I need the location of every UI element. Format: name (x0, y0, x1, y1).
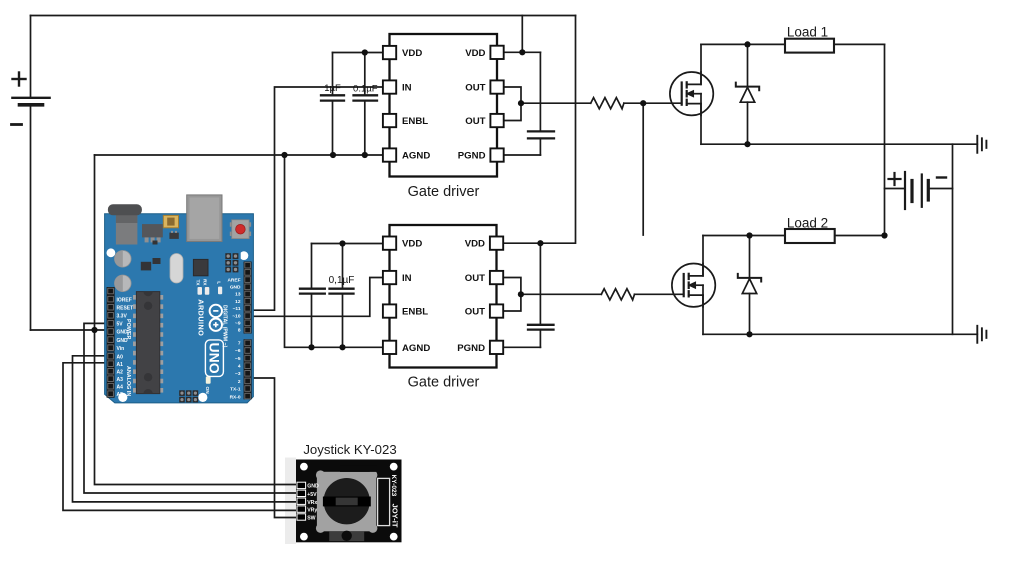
pin header (297, 482, 306, 520)
wire Load 1 to battery B2 plus vertical (884, 44, 886, 235)
module PCB (296, 460, 402, 543)
node D2 cathode (746, 232, 752, 238)
pin labels (307, 484, 319, 522)
svg-text:Gate driver: Gate driver (408, 184, 480, 200)
svg-text:JOY-iT: JOY-iT (391, 504, 400, 528)
svg-text:~5: ~5 (235, 356, 241, 362)
svg-text:VDD: VDD (465, 48, 485, 59)
left pin header power (107, 287, 115, 352)
svg-text:GND: GND (230, 285, 241, 291)
ARDUINO infinity logo (210, 305, 222, 331)
wire Arduino pin ~10 to gate driver U2 IN (251, 278, 384, 317)
wire stub node below R1 (642, 103, 644, 235)
MOSFET Q1 (670, 72, 713, 115)
svg-text:ENBL: ENBL (402, 307, 428, 318)
Arduino UNO board (105, 195, 254, 403)
joystick knob (324, 478, 370, 524)
svg-text:ON: ON (204, 387, 210, 395)
USB connector (187, 195, 222, 242)
button body bottom (329, 531, 364, 541)
voltage regulator (145, 237, 149, 242)
svg-text:2: 2 (238, 379, 241, 385)
capacitor C3 (U1 VDD-PGND bypass) (504, 131, 555, 155)
svg-text:12: 12 (235, 299, 241, 305)
wire Arduino A0 to joystick VRx (73, 356, 300, 502)
svg-text:KY-023: KY-023 (390, 475, 397, 497)
node C5 to U2 VDD (339, 240, 345, 246)
ground symbol (upper) (977, 136, 986, 153)
svg-text:PGND: PGND (457, 343, 485, 354)
svg-text:~3: ~3 (235, 371, 241, 377)
crystal (170, 254, 183, 284)
wire ground vertical from AGND rail to joystick GND (95, 155, 300, 485)
polyfuse (163, 215, 178, 227)
svg-text:AREF: AREF (227, 277, 240, 283)
svg-text:VRx: VRx (307, 500, 317, 506)
wire Arduino pin 2 to joystick SW (251, 378, 300, 518)
svg-text:L: L (216, 281, 221, 284)
ATmega DIP chip (133, 292, 163, 394)
load resistor Load 1 (785, 39, 834, 53)
capacitor C4 (U2 left cap) (300, 244, 325, 348)
node C4 to AGND2 (308, 344, 314, 350)
wire R1 to MOSFET Q1 gate (624, 102, 682, 104)
node U2 VDD supply junction (537, 240, 543, 246)
node C1 to AGND (330, 152, 336, 158)
svg-text:UNO: UNO (206, 343, 222, 374)
right pin header digital low (244, 339, 252, 399)
corner holes (300, 463, 308, 471)
node GND at Arduino (91, 327, 97, 333)
capacitor C5 0,1uF (330, 244, 354, 348)
svg-text:DIGITAL (PWM ~): DIGITAL (PWM ~) (222, 305, 228, 348)
node U2 OUT junction (518, 291, 524, 297)
svg-text:A3: A3 (117, 377, 124, 383)
svg-text:IN: IN (402, 273, 412, 284)
capacitor C2 0.1uF (354, 53, 378, 156)
light backing strip behind joystick (285, 458, 296, 545)
ON LED (206, 376, 211, 383)
svg-text:ARDUINO: ARDUINO (197, 299, 206, 336)
capacitor C1 1uF (321, 53, 344, 156)
node U1 VDD supply junction (519, 49, 525, 55)
svg-text:~10: ~10 (232, 313, 240, 319)
TX RX L LEDs (198, 287, 203, 295)
svg-text:Load 1: Load 1 (787, 24, 828, 39)
svg-text:IOREF: IOREF (117, 297, 132, 303)
svg-text:Joystick KY-023: Joystick KY-023 (303, 442, 396, 457)
svg-text:A4: A4 (117, 384, 124, 390)
wire VDD decoupling rail of U1 (333, 52, 384, 54)
svg-text:~9: ~9 (235, 321, 241, 327)
svg-text:A1: A1 (117, 362, 124, 368)
svg-text:A5: A5 (117, 392, 124, 398)
node C5 to AGND2 (339, 344, 345, 350)
wire U2 OUT pins tied to node (504, 278, 602, 312)
joystick base (316, 465, 378, 533)
node C2 to AGND (362, 152, 368, 158)
svg-text:RX-0: RX-0 (230, 394, 241, 400)
svg-text:GND: GND (117, 330, 129, 336)
capacitor C6 (U2 VDD-PGND bypass) (504, 243, 554, 347)
wire VDD decoupling rail of U2 (312, 243, 384, 245)
mounting holes (107, 248, 116, 257)
svg-text:7: 7 (238, 340, 241, 346)
svg-text:OUT: OUT (465, 116, 485, 127)
resistor R2 (gate resistor) (601, 289, 634, 300)
svg-text:VDD: VDD (402, 239, 422, 250)
svg-text:~11: ~11 (233, 306, 241, 312)
svg-text:TX-1: TX-1 (230, 387, 241, 393)
electrolytic capacitors (115, 250, 132, 291)
right pin header digital high (244, 262, 252, 334)
ICSP header top-right (225, 252, 241, 272)
wire Q1 drain rail to Load 1 (701, 44, 885, 84)
node Q1 gate junction (640, 100, 646, 106)
svg-text:VRy: VRy (307, 508, 317, 514)
smd transistor (169, 233, 178, 239)
MOSFET Q2 (672, 264, 715, 307)
Joystick KY-023 module (296, 460, 402, 543)
svg-text:AGND: AGND (402, 343, 430, 354)
load resistor Load 2 (785, 229, 835, 243)
svg-text:RX: RX (203, 279, 208, 286)
node D1 anode (744, 141, 750, 147)
wire Arduino pin ~11 to gate driver U1 IN (251, 87, 384, 310)
svg-text:GND: GND (307, 484, 319, 490)
svg-text:4: 4 (238, 364, 241, 370)
SMD outline right (378, 478, 390, 525)
wire R2 to MOSFET Q2 gate (635, 293, 684, 295)
gate driver U1 (383, 34, 504, 200)
svg-text:OUT: OUT (465, 83, 485, 94)
resistor R1 (gate resistor) (591, 98, 624, 109)
ICSP header bottom (179, 390, 198, 402)
node D2 anode (746, 331, 752, 337)
svg-text:Gate driver: Gate driver (408, 375, 480, 391)
svg-text:~6: ~6 (235, 348, 241, 354)
svg-text:IN: IN (402, 83, 412, 94)
svg-text:+5V: +5V (307, 492, 317, 498)
board PCB (105, 214, 254, 403)
svg-text:8: 8 (238, 328, 241, 334)
UNO label (205, 340, 223, 377)
svg-text:13: 13 (235, 292, 241, 298)
small ICs (141, 262, 151, 271)
node B2 plus with Load 2 (881, 232, 887, 238)
svg-text:ANALOG IN: ANALOG IN (125, 366, 131, 396)
wire top supply rail from battery B1 plus to driver drop (31, 15, 576, 17)
wire Q2 source rail to ground (703, 295, 977, 334)
reset button (230, 220, 251, 239)
node U1 VDD decoupling junction (362, 49, 368, 55)
svg-text:5V: 5V (117, 322, 124, 328)
svg-text:PGND: PGND (458, 151, 486, 162)
svg-text:ENBL: ENBL (402, 116, 428, 127)
power jack (116, 211, 137, 245)
zener diode D2 (across Q2) (738, 236, 761, 335)
left pin header analog (107, 352, 115, 397)
wire AGND drop to gate driver U2 AGND rail (285, 155, 384, 347)
svg-text:SW: SW (307, 516, 315, 522)
node D1 cathode (744, 41, 750, 47)
wire Q2 drain rail to Load 2 (703, 236, 885, 276)
wire battery B1 minus to Arduino GND pin (31, 329, 108, 331)
pin labels left (117, 297, 134, 398)
svg-text:A0: A0 (117, 354, 124, 360)
wire Q1 source rail to ground (701, 104, 977, 145)
svg-text:VDD: VDD (465, 239, 485, 250)
svg-text:AGND: AGND (402, 151, 430, 162)
wire battery B2 minus vertical (952, 144, 954, 334)
battery B1 (top-left supply) (12, 16, 50, 331)
node AGND rail U2 branch (281, 152, 287, 158)
ground symbol (lower) (977, 326, 986, 343)
wire Arduino 5V to joystick +5V (84, 323, 299, 493)
svg-text:1µF: 1µF (324, 83, 341, 94)
svg-text:VDD: VDD (402, 48, 422, 59)
svg-text:OUT: OUT (465, 273, 485, 284)
svg-text:Load 2: Load 2 (787, 215, 828, 230)
svg-text:OUT: OUT (465, 307, 485, 318)
zener diode D1 (across Q1) (736, 44, 759, 144)
svg-text:A2: A2 (117, 369, 124, 375)
svg-text:0,1µF: 0,1µF (329, 275, 355, 286)
node U1 OUT junction (518, 100, 524, 106)
wire top rail drop to gate driver U2 VDD (504, 16, 576, 244)
wire U1 OUT pins tied to node (504, 87, 591, 121)
gate driver U2 (383, 225, 503, 391)
wire Arduino A1 to joystick VRy (63, 363, 299, 511)
svg-text:RESET: RESET (117, 305, 134, 311)
svg-text:3.3V: 3.3V (117, 314, 128, 320)
svg-text:Vin: Vin (117, 346, 125, 352)
wire U1 VDD right to top rail and bypass cap (504, 16, 541, 132)
svg-text:GND: GND (117, 338, 129, 344)
battery B2 (load supply) (885, 172, 953, 209)
wire AGND rail of gate driver U1 (95, 154, 384, 156)
svg-text:TX: TX (195, 280, 200, 287)
svg-text:0.1µF: 0.1µF (353, 83, 378, 94)
pin labels right (227, 277, 241, 400)
